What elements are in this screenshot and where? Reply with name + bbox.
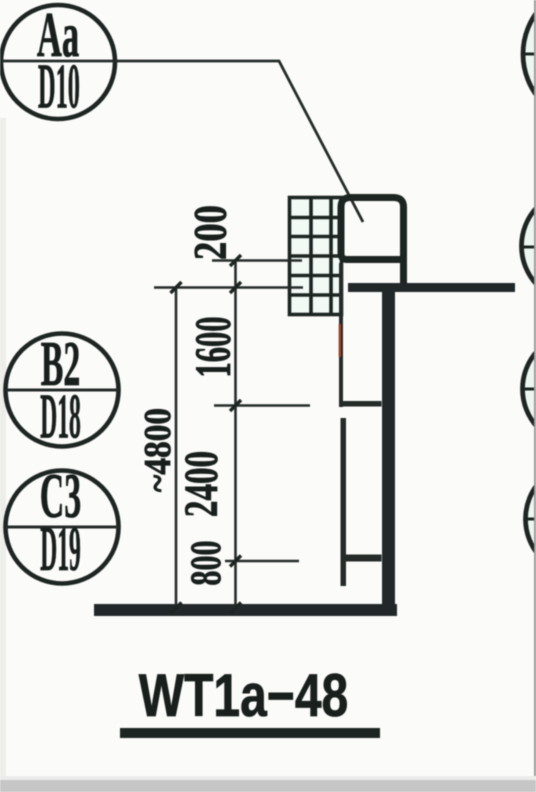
wall inner face upper thin line — [339, 263, 343, 407]
divider line C3 circle — [6, 526, 119, 529]
leader line from circle Aa to coping — [1, 61, 363, 222]
coping rounded cap — [341, 198, 404, 260]
extension line 1600/2400 — [214, 404, 310, 407]
svg-text:~4800: ~4800 — [136, 408, 178, 492]
roof slab thick line — [348, 283, 515, 292]
partial callout circle right 4 — [526, 463, 536, 576]
upper ledge — [339, 401, 382, 407]
svg-text:D19: D19 — [40, 514, 81, 584]
dimension vertical line overall — [175, 288, 178, 613]
bottom scrollbar light edge — [0, 776, 536, 780]
lower ledge — [341, 555, 382, 562]
svg-text:D18: D18 — [40, 382, 81, 452]
svg-text:800: 800 — [183, 540, 231, 585]
right window edge line — [534, 0, 536, 780]
svg-text:200: 200 — [184, 205, 236, 260]
partial callout circle right 3 — [523, 333, 536, 446]
ground line — [94, 604, 397, 616]
bottom scrollbar grey bar — [0, 780, 536, 792]
svg-text:D10: D10 — [38, 52, 80, 122]
red scan artifact — [339, 324, 342, 357]
wall inner face lower thin line — [341, 418, 347, 586]
faint page edge shading left — [0, 118, 6, 778]
callout circle B2/D18 — [6, 334, 119, 447]
callout circle Aa/D10 — [1, 5, 115, 119]
svg-text:2400: 2400 — [174, 451, 228, 517]
main wall — [382, 292, 395, 610]
partial callout circle right 1 — [523, 0, 536, 124]
coping right edge extension — [400, 252, 407, 292]
dimension vertical line segments — [234, 261, 237, 613]
extension line top of coping dim — [212, 259, 302, 262]
callout circle C3/D19 — [6, 471, 119, 584]
hatch grid backing tint — [288, 196, 343, 316]
hatch grid (railing) — [290, 198, 342, 315]
extension line 2400/800 — [225, 560, 299, 563]
svg-text:WT1a−48: WT1a−48 — [139, 662, 348, 729]
partial callout circle right 2 — [522, 190, 536, 303]
svg-text:1600: 1600 — [186, 316, 242, 377]
extension line roof level — [154, 286, 303, 289]
divider line B2 circle — [6, 389, 119, 392]
tick at (235.5,260.5) — [171, 255, 242, 614]
title underline — [120, 728, 380, 738]
